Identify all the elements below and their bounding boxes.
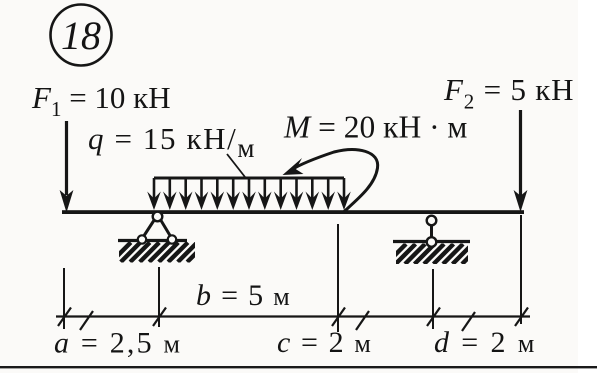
moment M curved arrow xyxy=(291,150,378,213)
pin support ground hatching xyxy=(111,243,207,263)
dimension slash tick at x=159 xyxy=(153,308,166,327)
pin support left foot circle xyxy=(138,235,146,243)
svg-text:c = 2 м: c = 2 м xyxy=(277,326,372,359)
svg-text:b = 5 м: b = 5 м xyxy=(196,279,291,312)
wire distributed-load arrow 10 xyxy=(295,178,298,199)
dimension extension line below pin support xyxy=(158,267,160,327)
pin support legs xyxy=(143,218,156,238)
wire distributed-load arrow 5 xyxy=(216,178,219,199)
wire distributed-load arrow 9 xyxy=(279,178,282,199)
dimension extension line at beam left end xyxy=(63,268,65,329)
wire distributed-load arrow 7 xyxy=(248,178,251,199)
svg-text:q = 15 кН/м: q = 15 кН/м xyxy=(88,121,256,163)
svg-text:M = 20 кН · м: M = 20 кН · м xyxy=(283,110,467,145)
dimension slash tick at x=521 xyxy=(515,308,528,327)
roller support stem xyxy=(430,221,433,241)
dimension extension line at load right end xyxy=(337,224,339,332)
extra slash mark in segment a xyxy=(80,311,93,330)
wire distributed-load arrow 2 xyxy=(169,178,172,199)
svg-text:a = 2,5 м: a = 2,5 м xyxy=(54,327,182,360)
distributed load top line xyxy=(154,177,344,180)
wire distributed-load arrow 1 xyxy=(153,178,156,199)
force F2 arrow xyxy=(519,110,522,196)
wire distributed-load arrow 6 xyxy=(232,178,235,199)
extra slash mark in segment c xyxy=(356,311,369,330)
wire distributed-load arrow 8 xyxy=(263,178,266,199)
wire distributed-load arrow 3 xyxy=(184,178,187,199)
roller support upper circle xyxy=(427,216,437,226)
wire distributed-load arrow 12 xyxy=(327,178,330,199)
dimension slash tick at x=64 xyxy=(58,308,71,327)
dimension slash tick at x=433 xyxy=(427,308,440,327)
extra slash mark in segment d xyxy=(462,312,475,331)
roller support lower circle xyxy=(427,237,437,247)
dimension chain line xyxy=(56,315,530,317)
roller support ground line xyxy=(393,240,470,243)
pin support ground line xyxy=(118,239,187,242)
wire distributed-load arrow 4 xyxy=(200,178,203,199)
beam xyxy=(62,210,524,214)
svg-text:d = 2 м: d = 2 м xyxy=(434,326,537,359)
scan margin (white strip right edge) xyxy=(578,0,597,373)
svg-text:F1 = 10 кН: F1 = 10 кН xyxy=(31,80,171,121)
pin support right foot circle xyxy=(168,235,176,243)
wire distributed-load arrow 13 xyxy=(343,178,346,199)
wire distributed-load arrow 11 xyxy=(311,178,314,199)
problem number circle 18 xyxy=(51,5,112,66)
svg-text:18: 18 xyxy=(61,13,101,58)
force F1 arrow xyxy=(65,121,68,195)
roller support ground hatching xyxy=(386,244,482,264)
leader line from q label xyxy=(227,154,245,177)
page rule at bottom xyxy=(0,366,597,368)
dimension extension line below roller support xyxy=(432,269,434,329)
dimension extension line at beam right end xyxy=(520,215,522,324)
svg-text:F2 = 5 кН: F2 = 5 кН xyxy=(443,72,574,114)
dimension slash tick at x=338 xyxy=(332,308,345,327)
pin support top hinge circle xyxy=(153,212,163,222)
